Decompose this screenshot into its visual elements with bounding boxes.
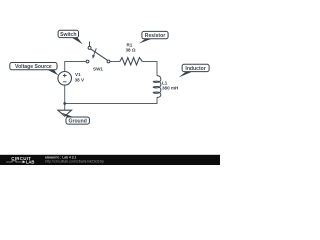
- label V1 value: [75, 72, 85, 82]
- svg-text:Switch: Switch: [60, 32, 76, 38]
- svg-text:SW1: SW1: [93, 67, 103, 72]
- wire: switch right terminal to resistor: [110, 61, 120, 63]
- callout Switch: [58, 30, 83, 44]
- wire: resistor to top-right corner down to inductor: [142, 62, 157, 76]
- inductor L1: [153, 76, 161, 98]
- wire: inductor bottom to bottom rail to V1 bottom: [65, 85, 157, 103]
- svg-text:Ground: Ground: [69, 119, 87, 125]
- resistor R1: [120, 58, 143, 65]
- svg-text:Inductor: Inductor: [185, 66, 205, 72]
- callout Resistor: [139, 31, 168, 43]
- wire top: V1 top to switch left terminal: [65, 62, 87, 72]
- callout Voltage Source: [10, 63, 59, 76]
- svg-text:Resistor: Resistor: [145, 33, 165, 39]
- svg-text:http://circuitlab.com/c6a0emk2: http://circuitlab.com/c6a0emk23c61lp: [45, 160, 104, 164]
- CircuitLab logo: [6, 156, 34, 164]
- svg-text:38 Ω: 38 Ω: [125, 48, 135, 53]
- wire: ground stub: [64, 104, 66, 111]
- switch SW1: [86, 42, 110, 63]
- voltage source V1: [58, 72, 72, 86]
- svg-text:LAB: LAB: [26, 160, 35, 165]
- callout Ground: [61, 112, 89, 124]
- svg-text:38 V: 38 V: [75, 77, 85, 82]
- callout Inductor: [179, 64, 210, 77]
- footer bar: [0, 155, 220, 165]
- svg-text:Voltage Source: Voltage Source: [15, 64, 52, 70]
- ground: [58, 110, 72, 116]
- switch actuator arrowhead: [92, 55, 95, 59]
- label R1 value: [125, 43, 135, 53]
- label L1 value: [162, 81, 179, 91]
- svg-text:380 mH: 380 mH: [162, 86, 179, 91]
- node junction dot: [63, 102, 66, 105]
